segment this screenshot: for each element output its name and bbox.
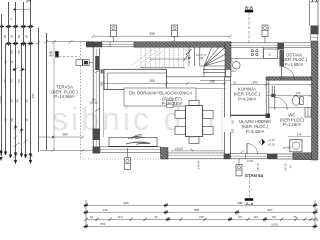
svg-text:40: 40 <box>90 215 94 219</box>
svg-text:110: 110 <box>231 69 236 73</box>
toilet <box>292 96 303 106</box>
svg-text:240-08: 240-08 <box>197 160 201 169</box>
svg-text:28: 28 <box>16 99 20 103</box>
wall bottom right hatched <box>293 153 312 160</box>
svg-text:148: 148 <box>296 91 301 95</box>
top dim line 398 <box>92 35 232 38</box>
svg-text:88 15: 88 15 <box>284 163 288 170</box>
svg-text:96: 96 <box>10 79 14 83</box>
svg-text:30: 30 <box>3 35 7 39</box>
svg-text:75: 75 <box>293 215 297 219</box>
terrace bench <box>109 138 157 147</box>
stair wall slot <box>226 70 231 77</box>
room label TERASA <box>51 85 78 100</box>
svg-text:58: 58 <box>10 118 14 122</box>
wall pier right of entry <box>267 154 277 160</box>
sink P <box>264 49 278 58</box>
chair top <box>189 100 199 105</box>
svg-text:±0,00: ±0,00 <box>175 147 183 151</box>
wire bottom guide right <box>314 200 316 228</box>
wall wc south line <box>269 107 312 109</box>
svg-text:88 15: 88 15 <box>256 163 260 170</box>
bottom arrowheads row1 <box>0 151 3 156</box>
dim line row4 <box>86 225 315 227</box>
top-left bracket <box>27 1 31 3</box>
entry door <box>247 144 258 155</box>
wall pier left lower <box>93 129 100 141</box>
svg-text:280: 280 <box>31 93 35 98</box>
wall kitchen south <box>231 114 269 116</box>
window bottom band left (living) <box>100 147 161 153</box>
wire dashed helper terrace <box>55 56 80 58</box>
room label KUHINJA <box>234 87 261 102</box>
svg-text:P=4,24m²: P=4,24m² <box>238 97 257 102</box>
svg-text:/28: /28 <box>199 56 203 60</box>
svg-text:P: P <box>269 53 271 57</box>
svg-text:30: 30 <box>10 35 14 39</box>
washing machine <box>290 140 302 152</box>
kitchen counter <box>231 47 280 58</box>
wall kitchen/hall vertical <box>266 80 269 115</box>
svg-text:P=1,60m²: P=1,60m² <box>285 62 304 67</box>
wall top right band (kitchen/ostava) <box>231 43 311 48</box>
left dimension cluster <box>2 0 47 164</box>
window bottom band center <box>168 153 224 159</box>
svg-text:98: 98 <box>17 50 21 54</box>
wall left west <box>93 42 103 154</box>
row2 ticks <box>83 210 89 214</box>
svg-text:146: 146 <box>297 133 302 137</box>
wall bottom-left corner block <box>93 147 100 154</box>
wire terrace top edge line <box>47 41 94 43</box>
node ticks row y43 <box>6 42 12 46</box>
svg-text:86: 86 <box>10 50 14 54</box>
bottom arrowheads row2 <box>0 157 2 160</box>
svg-text:90: 90 <box>231 120 235 124</box>
svg-text:198: 198 <box>209 79 215 83</box>
wire terrace left edge <box>53 42 55 151</box>
row4 ticks <box>83 224 89 228</box>
svg-text:A-A: A-A <box>245 5 254 10</box>
room label DN BORAVAK <box>129 91 193 107</box>
dim line row3 <box>86 218 315 220</box>
dim line row1 <box>86 204 315 206</box>
stair dotted upper treads <box>141 48 183 67</box>
kitchen dim line <box>231 83 313 86</box>
marker box M3 <box>262 25 268 37</box>
svg-text:96: 96 <box>3 79 7 83</box>
svg-text:110: 110 <box>118 215 123 219</box>
stair winder fan <box>204 48 226 67</box>
room label WC <box>280 113 305 128</box>
svg-text:90: 90 <box>238 215 242 219</box>
svg-text:58: 58 <box>4 118 8 122</box>
marker box M5 below hall window <box>236 164 242 176</box>
svg-text:STAN 5a: STAN 5a <box>245 173 264 178</box>
boiler circle <box>233 62 241 70</box>
step mark small rect <box>167 101 174 108</box>
svg-text:110: 110 <box>253 215 258 219</box>
chair right 1 <box>203 110 213 118</box>
svg-text:P=3,42m²: P=3,42m² <box>246 129 265 134</box>
marker boxes M6 terrace door <box>76 60 93 66</box>
wc door arc <box>275 97 288 110</box>
svg-text:140: 140 <box>102 208 107 212</box>
window bottom right <box>277 154 293 159</box>
wire gallery edge dotted <box>221 90 223 154</box>
wire bottom guide left <box>85 200 87 228</box>
stair break line <box>184 49 192 61</box>
svg-text:1195: 1195 <box>271 222 278 226</box>
left cluster number labels (rotated) <box>0 18 35 144</box>
node ticks row y26.5 <box>0 25 4 29</box>
wc dim 148 <box>266 94 311 96</box>
svg-text:230: 230 <box>199 215 204 219</box>
svg-text:306: 306 <box>123 201 128 205</box>
svg-text:18: 18 <box>25 99 29 103</box>
stair bottom edge <box>160 76 231 78</box>
terrace dim line lower <box>40 150 93 152</box>
svg-text:A-A: A-A <box>311 0 318 4</box>
svg-text:P=36,83m²: P=36,83m² <box>162 101 183 106</box>
radiator <box>305 108 311 118</box>
svg-text:365: 365 <box>100 81 104 86</box>
svg-text:30: 30 <box>25 35 29 39</box>
svg-text:96: 96 <box>17 79 21 83</box>
wall pier kitchen/ostava <box>277 43 284 50</box>
svg-text:340: 340 <box>252 80 258 84</box>
dining table <box>186 106 203 137</box>
svg-text:398: 398 <box>149 32 155 36</box>
bottom labels <box>90 201 297 226</box>
wall right above corner <box>310 0 319 41</box>
svg-text:DN. BORAVAK+BLAGOVAONICA: DN. BORAVAK+BLAGOVAONICA <box>129 91 193 96</box>
stove burners <box>251 50 258 56</box>
marker box M1 <box>111 25 117 37</box>
svg-text:280: 280 <box>62 132 68 136</box>
wall ostava/hall horizontal <box>266 77 312 80</box>
svg-text:±0,00: ±0,00 <box>0 96 3 104</box>
svg-text:308: 308 <box>194 208 199 212</box>
svg-text:230+20: 230+20 <box>89 101 98 104</box>
dim line row2 <box>86 211 315 213</box>
stair walking line arrow <box>150 58 188 60</box>
room label ULAZNI HODNIK <box>239 119 272 134</box>
chair left 1 <box>175 110 185 118</box>
label box DN BORAVAK <box>124 88 196 106</box>
svg-text:g=100: g=100 <box>283 146 291 149</box>
svg-text:30: 30 <box>315 208 319 212</box>
wall pier bottom (hall west) <box>224 154 231 160</box>
watermark <box>52 101 217 137</box>
window top-left band <box>102 42 134 47</box>
marker box M4 below living window <box>125 158 131 170</box>
window bottom small + entry threshold <box>231 154 268 159</box>
svg-text:90: 90 <box>50 54 53 58</box>
svg-text:±0,00: ±0,00 <box>268 143 275 147</box>
svg-text:+0,16: +0,16 <box>268 138 276 142</box>
svg-text:28: 28 <box>10 99 14 103</box>
svg-text:550: 550 <box>100 222 105 226</box>
svg-text:368: 368 <box>149 79 155 83</box>
wall hall/living west lines <box>225 77 231 154</box>
svg-text:30: 30 <box>4 60 8 64</box>
terrace dim 280 line <box>38 135 85 138</box>
svg-text:90: 90 <box>272 215 276 219</box>
wall top hatched (stair) <box>134 42 225 47</box>
level mark hall <box>259 138 275 147</box>
svg-text:205: 205 <box>231 128 235 133</box>
svg-text:P=14,96m²: P=14,96m² <box>54 94 75 99</box>
row1 ticks <box>83 203 89 207</box>
stair winder treads horizontal <box>200 66 226 77</box>
room label OSTAVA <box>281 52 308 67</box>
chair bottom <box>189 137 199 144</box>
gallery void outline <box>104 69 166 89</box>
wall kitchen/ostava vertical <box>280 50 284 66</box>
stair solid treads <box>189 47 200 66</box>
svg-text:15: 15 <box>289 165 293 169</box>
svg-text:90: 90 <box>233 80 237 84</box>
svg-text:597: 597 <box>267 208 272 212</box>
section mark A-A bottom <box>239 176 255 206</box>
chair left 2 <box>175 126 185 134</box>
svg-text:40: 40 <box>154 215 158 219</box>
svg-text:A-A: A-A <box>246 201 255 206</box>
wire vertical chain lines <box>1 14 3 156</box>
wall pier bottom mid <box>161 148 169 160</box>
wall stair east vertical <box>225 42 231 77</box>
marker box M2 <box>172 25 178 37</box>
plant on bench <box>126 134 150 144</box>
section mark A-A top <box>245 5 254 44</box>
node ticks y69.5 <box>13 68 18 72</box>
dim line 368 <box>102 82 227 85</box>
stair upper flight edge <box>140 67 185 69</box>
svg-text:16: 16 <box>10 60 14 64</box>
svg-text:445: 445 <box>237 201 242 205</box>
node ticks mid lower <box>14 125 18 130</box>
wall top-left corner block <box>86 42 102 48</box>
svg-text:P=1,16m²: P=1,16m² <box>283 122 302 127</box>
wire interior dim guide left <box>103 69 105 137</box>
svg-text:30: 30 <box>17 35 21 39</box>
wire terrace roof overhang dashed <box>80 42 82 159</box>
chair right 2 <box>203 126 213 134</box>
wall right outer hatched <box>312 41 319 160</box>
svg-text:18: 18 <box>25 118 29 122</box>
ostava door arc <box>282 67 295 80</box>
stair sloped ceiling dotted diagonals <box>131 50 163 68</box>
svg-text:p=90: p=90 <box>247 159 254 163</box>
svg-text:30: 30 <box>315 218 319 222</box>
row3 ticks <box>84 217 316 221</box>
overhang dotted line bottom <box>80 158 311 160</box>
wall wc west <box>272 86 274 97</box>
